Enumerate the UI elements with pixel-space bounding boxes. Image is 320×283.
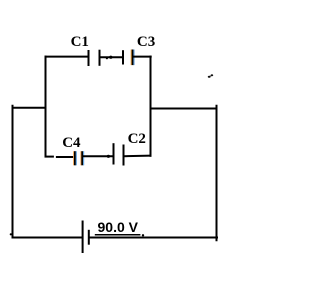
label C2 [128,132,146,147]
wire: bottom outer right segment [89,237,218,239]
wire: underline of voltage label [95,234,141,236]
label C1 [71,35,89,50]
capacitor C3 right plate (blue fringe) [133,50,135,66]
wire: top branch left segment [45,56,89,58]
wire: inner left vertical [45,56,47,158]
capacitor C4 left plate (blue fringe) [75,151,77,165]
wire: middle left connector [13,107,47,109]
capacitor C3 left plate [122,50,124,64]
node: junction dot between C1 and C3 [109,56,112,59]
capacitor C3 right plate (orange fringe) [130,50,132,66]
capacitor C4 right plate [81,151,83,165]
capacitor C2 right plate [123,145,125,166]
node: junction dot between C4 and C2 [107,155,110,158]
wire: left rail [12,105,14,238]
label 90.0 V [98,220,138,234]
capacitor C4 left plate (orange fringe) [73,151,75,165]
node: dot right of underline [142,234,144,236]
wire: bottom inner branch right segment [124,155,152,158]
wire: between C1 and C3 [100,56,123,58]
capacitor C4 right plate (blue fringe) [83,151,85,165]
label C4 [62,136,80,151]
wire: right rail [216,105,218,242]
wire: bottom inner branch left segment after break [56,156,75,158]
label C3 [137,35,155,50]
battery long plate [82,221,84,254]
node: small nub on wire [106,57,108,59]
capacitor C3 right plate [132,50,134,66]
wire: inner right vertical [150,56,152,157]
wire: between C4 and C2 [82,155,113,157]
wire: top branch right segment [133,56,152,58]
node: nub at left rail bottom corner [10,233,12,235]
wire: bottom outer left segment [12,237,83,239]
capacitor C4 right plate (orange fringe) [80,151,82,165]
stray mark top right [208,74,213,77]
capacitor C1 left plate [88,50,90,66]
capacitor C2 left plate [113,143,115,164]
capacitor C1 right plate [99,50,101,66]
battery short plate [88,230,90,245]
wire: bottom inner branch left segment [45,156,54,158]
capacitor C4 left plate [74,151,76,165]
wire: middle right connector [150,108,217,110]
